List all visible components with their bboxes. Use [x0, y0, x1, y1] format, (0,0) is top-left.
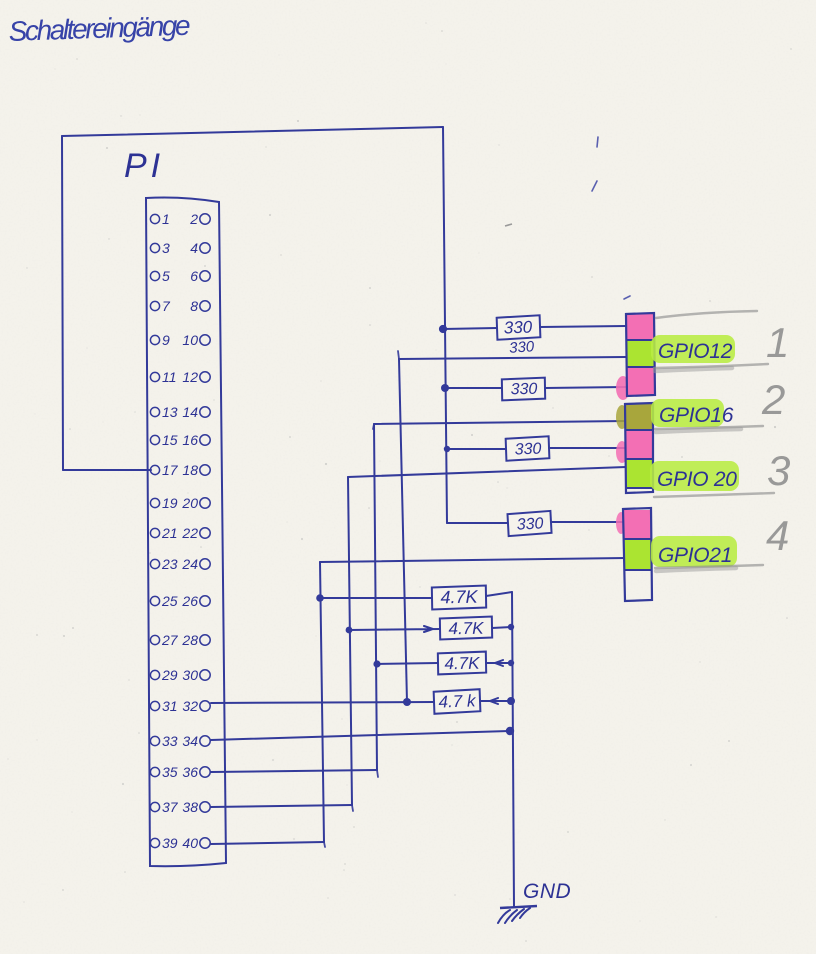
svg-text:31: 31: [162, 698, 178, 714]
svg-text:5: 5: [162, 268, 170, 284]
pin 15: [150, 432, 177, 448]
resistor R1 330: [497, 315, 541, 339]
pencil underline below GPIO21: [655, 565, 763, 571]
svg-text:32: 32: [182, 698, 198, 714]
net GPIO12: wire to switch1 bottom contact: [399, 357, 626, 359]
stray pencil dash: [505, 224, 512, 226]
wire: left rail vertical: [62, 136, 63, 470]
svg-text:33: 33: [162, 733, 178, 749]
net GPIO20: vertical drop: [348, 477, 352, 805]
pin 31: [150, 698, 177, 714]
resistor R6 4.7K: [440, 617, 492, 640]
svg-text:21: 21: [161, 525, 178, 541]
wire: 3V3 drop vertical: [443, 127, 447, 523]
pin 3: [150, 240, 170, 256]
svg-text:1: 1: [766, 319, 789, 366]
junction: pin34 wire on GND rail: [506, 727, 514, 735]
net GPIO21: wire to switch4 bottom contact: [320, 558, 626, 562]
label GPIO20 (highlighted): [650, 461, 739, 491]
pin 32: [182, 698, 210, 714]
pin 29: [150, 667, 177, 683]
pin 28: [181, 632, 210, 648]
svg-text:9: 9: [162, 332, 170, 348]
svg-text:25: 25: [161, 593, 178, 609]
GND label: [523, 880, 571, 903]
title label: Schaltereingänge: [8, 10, 190, 47]
pin 27: [150, 632, 178, 648]
svg-text:38: 38: [182, 799, 198, 815]
svg-text:6: 6: [190, 268, 198, 284]
svg-text:30: 30: [182, 667, 198, 683]
junction: GPIO16 to R7: [373, 660, 380, 667]
svg-text:14: 14: [182, 404, 198, 420]
svg-text:4: 4: [190, 240, 198, 256]
pin 20: [181, 495, 210, 511]
wire: R8 right lead to GND rail: [480, 698, 511, 704]
resistor R8 4.7k (inline pin32 wire): [434, 689, 481, 714]
switch number 3: [767, 447, 790, 494]
svg-text:13: 13: [162, 404, 178, 420]
net GPIO12: vertical drop: [399, 359, 407, 702]
svg-text:GPIO12: GPIO12: [658, 340, 733, 363]
net GPIO21: vertical drop: [320, 562, 324, 842]
resistor R7 4.7K: [438, 652, 486, 675]
wire: pin 34 to GND rail: [211, 731, 510, 740]
net GPIO12: wire pin 32 row: [211, 702, 434, 703]
label GPIO21 (highlighted): [651, 536, 737, 567]
svg-text:330: 330: [504, 318, 534, 338]
pin 24: [181, 556, 210, 572]
Raspberry Pi label PI: [124, 147, 164, 185]
pin 13: [150, 404, 177, 420]
resistor R2 330: [502, 378, 545, 401]
svg-text:17: 17: [162, 462, 179, 478]
junction: 3V3 to R1: [439, 325, 447, 333]
label GPIO16 (highlighted): [651, 399, 734, 427]
pin 40: [182, 835, 210, 851]
pin 21: [150, 525, 177, 541]
wire: R7 right lead to GND rail: [486, 660, 511, 666]
junction: GPIO21 to R5: [316, 594, 324, 602]
pin 35: [150, 764, 177, 780]
svg-text:19: 19: [162, 495, 178, 511]
junction: GPIO12 joins pin32 wire: [403, 698, 411, 706]
pin 19: [150, 495, 177, 511]
svg-text:GPIO16: GPIO16: [659, 404, 734, 427]
svg-text:3: 3: [162, 240, 170, 256]
pin 26: [181, 593, 210, 609]
wire: pin 17 to left rail: [63, 469, 151, 471]
pin 25: [150, 593, 177, 609]
PI GPIO header box: [146, 198, 226, 867]
wire: R5 right lead to GND rail: [486, 592, 512, 596]
svg-text:37: 37: [162, 799, 179, 815]
svg-text:36: 36: [182, 764, 198, 780]
switch number 4: [766, 512, 789, 559]
pin 5: [150, 268, 170, 284]
svg-text:39: 39: [162, 835, 178, 851]
svg-text:29: 29: [161, 667, 178, 683]
switch block 1 (strip): pink/green/pink cells: [616, 313, 655, 400]
resistor R3 330: [506, 436, 550, 460]
pin 7: [150, 298, 171, 314]
svg-text:27: 27: [161, 632, 179, 648]
svg-text:26: 26: [181, 593, 198, 609]
svg-text:330: 330: [509, 338, 536, 357]
resistor R5 4.7K: [432, 586, 486, 610]
junction: R8 to GND rail: [507, 697, 515, 705]
svg-text:11: 11: [162, 369, 177, 385]
pin 39: [150, 835, 177, 851]
wire: R3 left lead: [447, 448, 506, 450]
pin 2: [189, 211, 210, 227]
svg-text:1: 1: [162, 211, 170, 227]
pin 9: [150, 332, 170, 348]
wire: top rail horizontal: [62, 127, 443, 136]
junction: GPIO20 to R6: [346, 627, 353, 634]
net GPIO16: vertical drop: [374, 424, 377, 770]
pin 38: [182, 799, 210, 815]
wire: R2 left lead: [445, 387, 502, 389]
svg-text:2: 2: [761, 376, 785, 423]
svg-text:GND: GND: [523, 880, 571, 903]
net GPIO20: wire pin 38 row: [211, 805, 352, 807]
pin 6: [190, 268, 210, 284]
svg-text:16: 16: [182, 432, 198, 448]
stray pen marks: [592, 137, 630, 299]
svg-text:12: 12: [182, 369, 198, 385]
pin 17: [150, 462, 178, 478]
svg-text:GPIO 20: GPIO 20: [657, 468, 737, 491]
pin 4: [190, 240, 210, 256]
svg-text:10: 10: [182, 332, 198, 348]
pin 8: [190, 298, 210, 314]
junction: R7 to GND rail: [508, 660, 514, 666]
svg-text:28: 28: [181, 632, 198, 648]
switch block 2 (strip): olive/pink/green cells: [616, 403, 653, 493]
svg-text:22: 22: [181, 525, 198, 541]
svg-text:8: 8: [190, 298, 198, 314]
switch block 3 (strip): pink/green/blank cells: [616, 508, 652, 601]
net GPIO21: wire pin 40 row: [211, 842, 324, 844]
wire: R7 left lead: [377, 663, 438, 664]
svg-text:330: 330: [511, 381, 538, 398]
svg-text:4.7K: 4.7K: [444, 654, 480, 674]
svg-text:330: 330: [516, 515, 544, 533]
wire: R6 left lead: [349, 626, 440, 632]
junction: 3V3 to R3: [444, 446, 450, 452]
resistor R4 330: [507, 511, 551, 536]
svg-text:40: 40: [182, 835, 198, 851]
pin 18: [182, 462, 210, 478]
pencil underline below GPIO16: [655, 426, 763, 432]
pencil underline below GPIO20: [654, 493, 774, 497]
pin 14: [182, 404, 210, 420]
wire: R1 to switch1 top contact: [540, 326, 626, 327]
svg-text:4.7 k: 4.7 k: [438, 691, 477, 711]
svg-text:4.7K: 4.7K: [448, 619, 484, 639]
wire: 3V3 corner to R4: [447, 522, 508, 524]
svg-text:24: 24: [181, 556, 198, 572]
pin 10: [182, 332, 210, 348]
svg-text:23: 23: [161, 556, 178, 572]
svg-text:35: 35: [162, 764, 178, 780]
pen overshoot marks at wire corners: [324, 351, 399, 847]
svg-text:330: 330: [514, 441, 541, 459]
switch number 2: [761, 376, 785, 423]
svg-text:PI: PI: [124, 147, 164, 185]
pin 1: [150, 211, 169, 227]
wire: R4 to switch4 top contact: [551, 521, 626, 523]
svg-text:34: 34: [182, 733, 198, 749]
svg-text:4: 4: [766, 512, 789, 559]
pin 16: [182, 432, 210, 448]
ground symbol GND: [498, 906, 537, 923]
value label 330 (below R1): [509, 338, 536, 357]
svg-text:Schaltereingänge: Schaltereingänge: [8, 10, 190, 47]
svg-text:15: 15: [162, 432, 178, 448]
wire: R6 right lead to GND rail: [492, 627, 511, 628]
pin 23: [150, 556, 177, 572]
svg-text:20: 20: [181, 495, 198, 511]
label GPIO12 (highlighted): [651, 335, 735, 363]
wire: R5 left lead: [320, 597, 432, 599]
pin 36: [182, 764, 210, 780]
pin 34: [182, 733, 210, 749]
pencil line above switch1: [656, 311, 757, 318]
wire: R1 left lead: [443, 328, 497, 329]
svg-text:3: 3: [767, 447, 790, 494]
svg-text:4.7K: 4.7K: [440, 587, 478, 608]
svg-text:GPIO21: GPIO21: [658, 544, 732, 567]
pin 37: [150, 799, 178, 815]
net GPIO16: wire pin 36 row: [211, 770, 377, 772]
wire: GND rail vertical: [512, 592, 514, 907]
net GPIO16: wire to switch2 bottom contact: [374, 421, 626, 424]
pin 11: [150, 369, 176, 385]
pin 12: [182, 369, 210, 385]
pin 33: [150, 733, 177, 749]
pin 22: [181, 525, 210, 541]
svg-text:7: 7: [162, 298, 171, 314]
wire: R3 to switch3 top contact: [549, 447, 626, 449]
junction: 3V3 to R2: [441, 384, 449, 392]
switch number 1: [766, 319, 789, 366]
svg-text:2: 2: [189, 211, 198, 227]
net GPIO20: wire to switch3 bottom contact: [348, 467, 626, 477]
junction: R6 to GND rail: [508, 624, 514, 630]
svg-text:18: 18: [182, 462, 198, 478]
pin 30: [182, 667, 210, 683]
wire: R2 to switch2 top contact: [545, 387, 626, 388]
pencil underline below GPIO12: [654, 364, 768, 371]
